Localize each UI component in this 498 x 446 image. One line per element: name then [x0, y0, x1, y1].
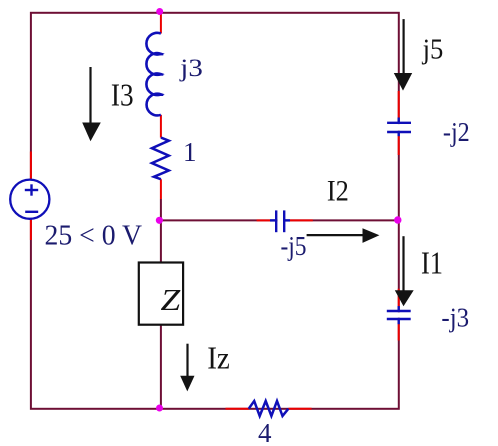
svg-text:-j5: -j5 [281, 231, 307, 261]
svg-text:I1: I1 [421, 245, 443, 281]
svg-text:Iz: Iz [207, 340, 230, 376]
svg-text:I3: I3 [111, 76, 134, 112]
svg-text:Z: Z [161, 282, 182, 317]
svg-text:I2: I2 [327, 174, 349, 207]
svg-text:j3: j3 [179, 55, 203, 82]
svg-text:1: 1 [183, 137, 197, 167]
svg-text:j5: j5 [422, 33, 444, 65]
svg-text:-j3: -j3 [441, 303, 469, 333]
svg-text:4: 4 [258, 418, 272, 446]
svg-text:25 < 0 V: 25 < 0 V [45, 221, 143, 252]
svg-text:-j2: -j2 [443, 117, 470, 147]
